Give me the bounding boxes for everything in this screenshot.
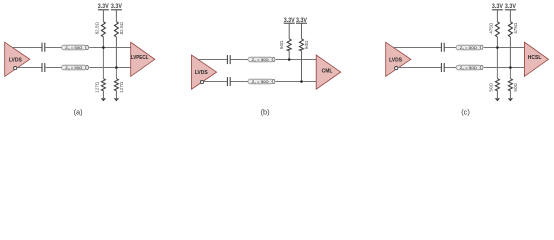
node D junction dot [300,80,303,83]
transmission line T5 Z0=50 [456,45,483,50]
op-amp U1 LVDS driver [5,42,30,76]
power rail bar 2 [111,9,122,11]
inversion bubble on OUT- [200,81,203,84]
ground arrow 3 [495,98,500,101]
resistor R7 475ohm pull-up [496,10,498,22]
transmission line T3 Z0=50 [248,57,275,62]
wire OUT+ driver to C5 [393,47,441,49]
transmission line T4 Z0=50 [248,79,275,84]
resistor R4 127ohm pull-down [114,79,118,91]
svg-text:Z₀ = 50Ω: Z₀ = 50Ω [460,46,477,50]
wire C2 to T2 [45,67,61,69]
wire OUT- driver to C2 [17,67,42,69]
power rail bar 3 [284,22,295,24]
resistor R2 82.5ohm pull-up [115,10,117,22]
wire C6 to T6 [445,67,456,69]
transmission line T2 Z0=50 [62,65,89,70]
resistor R6 50ohm pull-up [301,23,303,39]
svg-text:Z₀ = 50Ω: Z₀ = 50Ω [252,80,269,84]
svg-text:3.3V: 3.3V [111,3,123,10]
capacitor C3 [227,55,230,64]
svg-text:475Ω: 475Ω [513,22,518,34]
wire C5 to T5 [445,47,456,49]
wire C4 to T4 [231,81,248,83]
svg-text:50Ω: 50Ω [488,82,493,91]
wire T1 to node A [89,47,130,49]
svg-text:127Ω: 127Ω [94,81,99,93]
node B junction dot [115,66,118,69]
wire T5 to node E [484,47,525,49]
capacitor C5 [441,43,444,52]
svg-text:3.3V: 3.3V [98,3,110,10]
power rail bar 4 [296,22,307,24]
resistor R9 50ohm pull-down [495,79,499,91]
power rail bar 5 [492,9,503,11]
power rail bar 6 [505,9,516,11]
wire OUT- driver to C4 [204,81,228,83]
svg-text:LVDS: LVDS [195,70,209,76]
transmission line T1 Z0=50 [62,45,89,50]
op-amp U5 LVDS driver [386,42,411,76]
svg-text:(c): (c) [461,107,470,116]
resistor R8 475ohm pull-up [509,10,511,22]
svg-text:50Ω: 50Ω [513,82,518,91]
svg-text:HCSL: HCSL [528,55,542,61]
capacitor C2 [42,63,45,72]
op-amp U4 CML receiver [316,55,341,89]
svg-text:Z₀ = 50Ω: Z₀ = 50Ω [460,66,477,70]
wire OUT- driver to C6 [398,67,441,69]
capacitor C6 [441,63,444,72]
wire OUT+ driver to C3 [198,59,227,61]
svg-text:Z₀ = 50Ω: Z₀ = 50Ω [65,66,82,70]
svg-text:82.5Ω: 82.5Ω [119,21,124,34]
inversion bubble on OUT- [395,67,398,70]
wire T3 to node C [276,59,317,61]
node C junction dot [288,58,291,61]
svg-text:50Ω: 50Ω [279,40,284,49]
capacitor C1 [42,43,45,52]
ground arrow 1 [101,98,106,101]
wire T2 to node B [89,67,130,69]
svg-text:3.3V: 3.3V [505,3,517,10]
node E junction dot [496,46,499,49]
capacitor C4 [227,77,230,86]
svg-text:LVDS: LVDS [9,57,23,63]
wire T4 to node D [276,81,317,83]
svg-text:50Ω: 50Ω [304,40,309,49]
transmission line T6 Z0=50 [456,65,483,70]
svg-text:3.3V: 3.3V [492,3,504,10]
inversion bubble on OUT- [14,67,17,70]
resistor R1 82.5ohm pull-up [102,10,104,22]
wire node B vertical to R4 [115,68,117,79]
wire node E vertical to R9 [496,48,498,79]
resistor R5 50ohm pull-up [288,23,290,39]
op-amp U2 LVPECL receiver [131,42,155,76]
node A junction dot [102,46,105,49]
wire C1 to T1 [45,47,61,49]
svg-text:(b): (b) [261,107,270,116]
svg-text:LVPECL: LVPECL [131,55,149,61]
power rail bar 1 [98,9,109,11]
wire node F vertical to R10 [509,68,511,79]
svg-text:82.5Ω: 82.5Ω [94,21,99,34]
resistor R10 50ohm pull-down [508,79,512,91]
svg-text:475Ω: 475Ω [488,22,493,34]
wire node A vertical through to R3 [102,48,104,79]
wire OUT+ driver to C1 [12,47,41,49]
ground arrow 4 [508,98,513,101]
svg-text:(a): (a) [74,107,83,116]
svg-text:127Ω: 127Ω [119,81,124,93]
op-amp U6 HCSL receiver [524,42,548,76]
wire C3 to T3 [231,59,248,61]
op-amp U3 LVDS driver [192,55,217,89]
resistor R3 127ohm pull-down [101,79,105,91]
ground arrow 2 [114,98,119,101]
wire T6 to node F [484,67,525,69]
node F junction dot [509,66,512,69]
svg-text:LVDS: LVDS [389,57,403,63]
svg-text:Z₀ = 50Ω: Z₀ = 50Ω [252,58,269,62]
svg-text:Z₀ = 50Ω: Z₀ = 50Ω [65,46,82,50]
svg-text:CML: CML [322,68,333,74]
